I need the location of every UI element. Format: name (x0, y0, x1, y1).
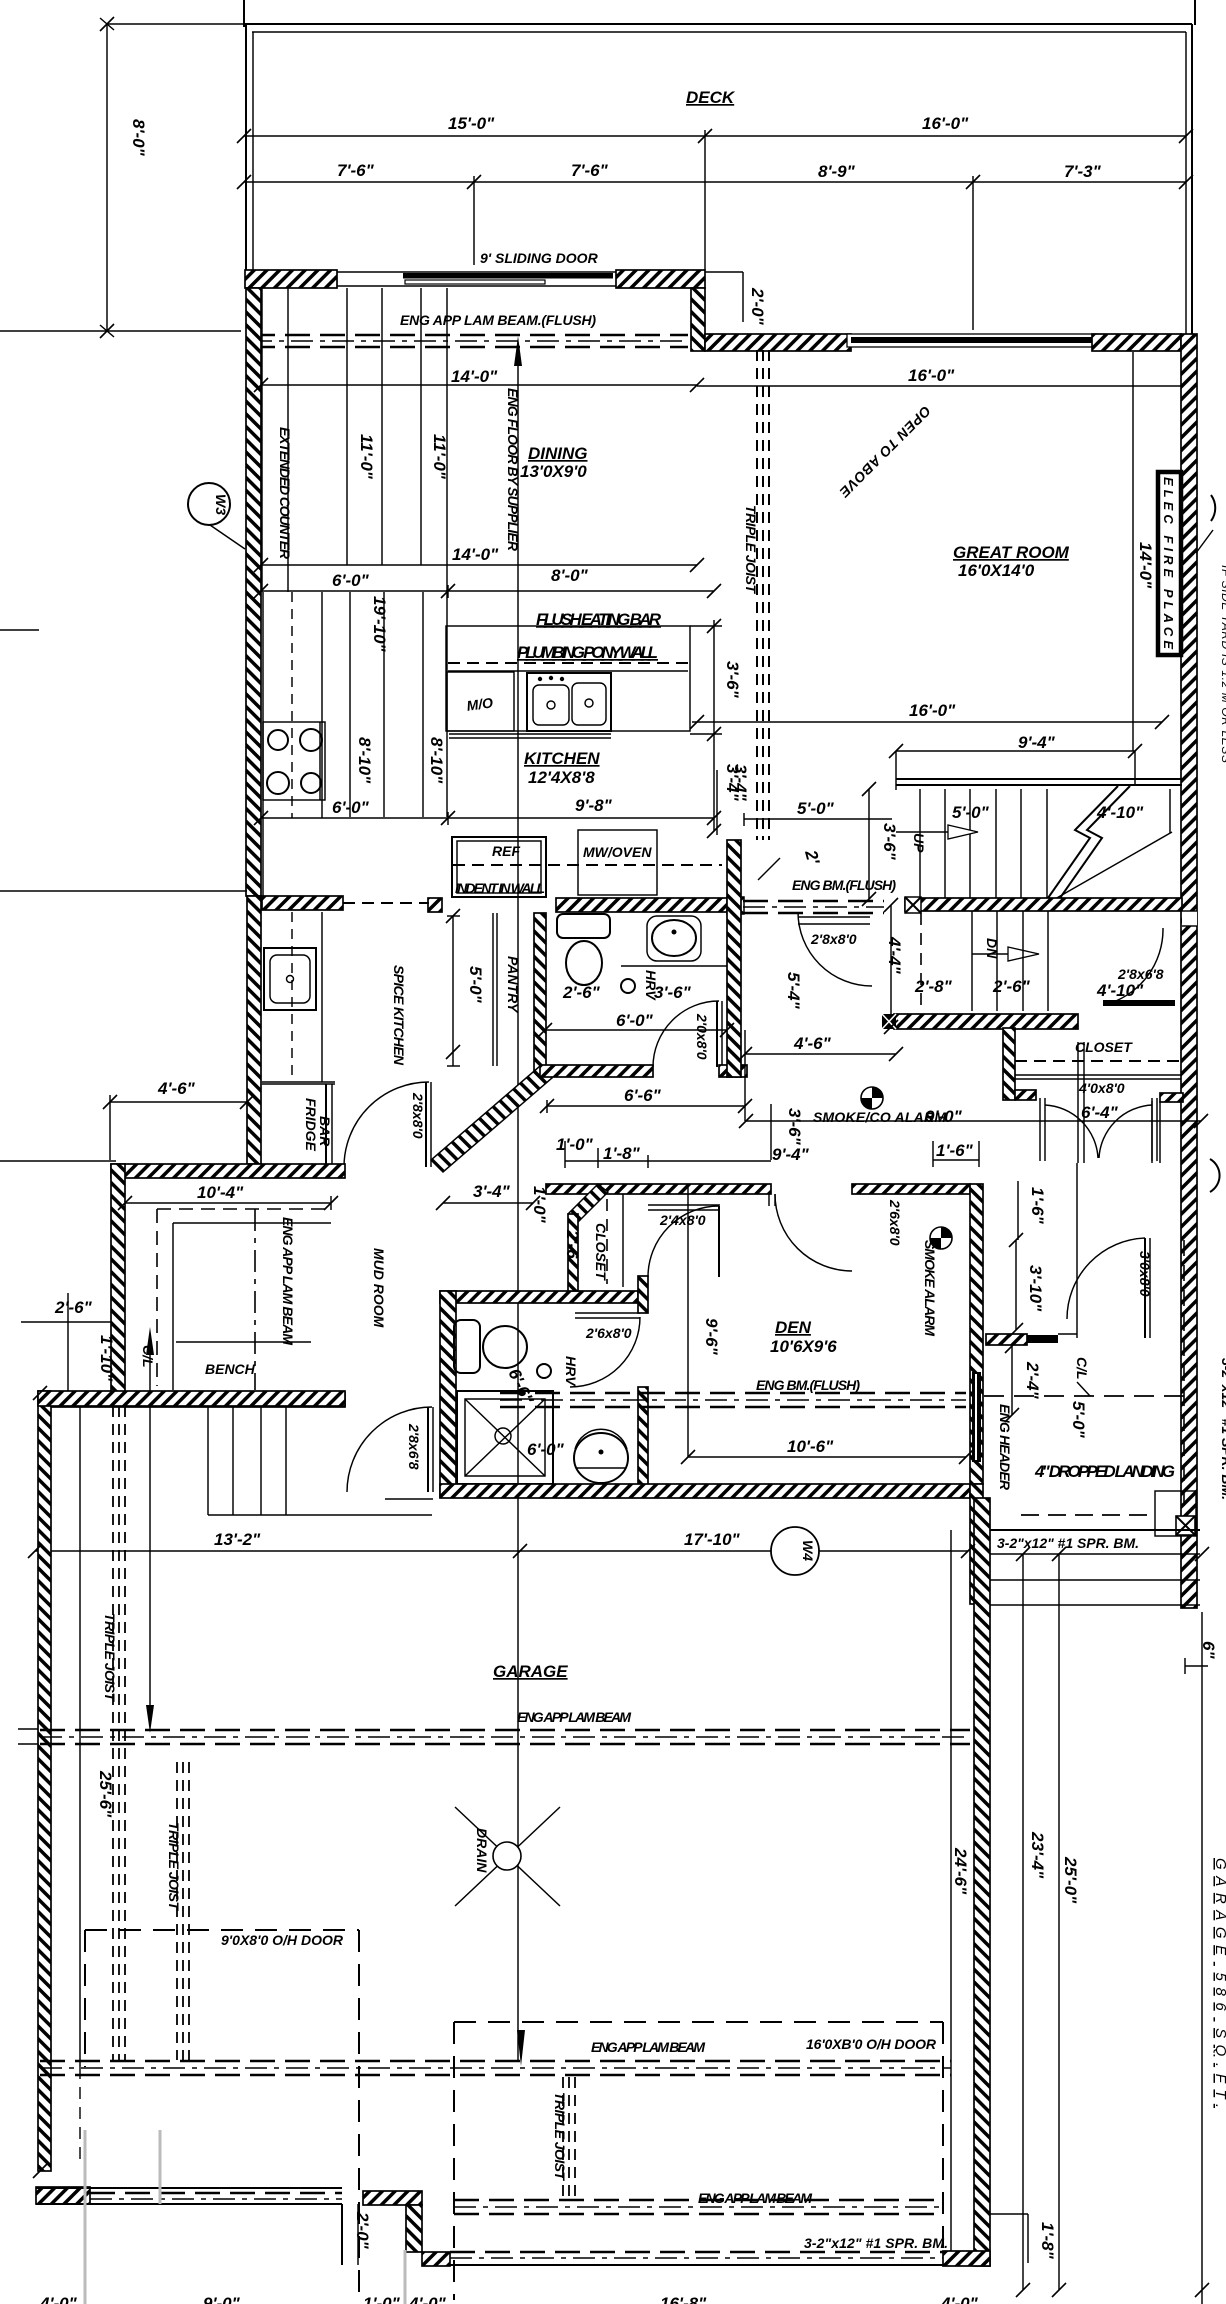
2' joist note (758, 847, 823, 880)
elec fireplace (1158, 472, 1181, 655)
dim 5'-0" landing (744, 799, 892, 826)
left exterior wall upper (246, 288, 261, 896)
svg-text:ENG APP LAM BEAM: ENG APP LAM BEAM (280, 1217, 296, 1345)
dim line 7'-6" 7'-6" 8'-9" 7'-3" (244, 161, 1186, 330)
9'0x8'0 OH door dashed (85, 1930, 359, 2300)
dim 9'-0" hall (746, 1107, 1201, 1126)
svg-text:11'-0": 11'-0" (357, 434, 376, 480)
svg-text:PLUMBING PONY WALL: PLUMBING PONY WALL (517, 643, 658, 662)
svg-text:5'-0": 5'-0" (797, 799, 835, 818)
landing dashes bottom (1021, 1514, 1147, 1516)
svg-text:16'-0": 16'-0" (908, 366, 955, 385)
svg-text:14'-0": 14'-0" (451, 367, 498, 386)
dim 4'-4" (885, 905, 904, 1027)
dim 2'-4" landing (1012, 1346, 1042, 1415)
svg-text:DECK: DECK (686, 88, 736, 107)
landing dashed line (984, 1395, 1186, 1397)
left bump lines (0, 629, 39, 631)
kitchen west counter (263, 592, 322, 896)
step wall at deck (691, 288, 705, 351)
beam ticks left of garage wall (18, 1728, 38, 1730)
wall jog right of closet (1152, 1093, 1183, 1163)
smoke/co alarm hall (813, 1087, 946, 1125)
bath sink (574, 1429, 628, 1483)
den door 2'6x8'0 (769, 1194, 903, 1271)
svg-text:1'-6": 1'-6" (1028, 1187, 1047, 1225)
UP arrow (896, 825, 978, 853)
bottom cut dims (39, 2294, 979, 2304)
pantry shelf line (492, 913, 494, 1066)
svg-text:GARAGE: GARAGE (493, 1662, 568, 1681)
landing north wall piece (986, 1334, 1077, 1345)
stair break zigzag (1048, 786, 1130, 898)
svg-text:25'-0": 25'-0" (1061, 1856, 1080, 1904)
2'4x8'0 door hall-den (623, 1194, 720, 1287)
svg-text:1'-0": 1'-0" (530, 1186, 549, 1224)
bath HRV (537, 1356, 579, 1387)
svg-text:4'-10": 4'-10" (1096, 981, 1144, 1000)
svg-text:2'-0": 2'-0" (353, 2211, 372, 2250)
svg-text:2'-8": 2'-8" (914, 977, 953, 996)
stair diagonal (1055, 832, 1172, 899)
svg-text:10'-4": 10'-4" (197, 1183, 244, 1202)
svg-text:6'-6": 6'-6" (624, 1086, 662, 1105)
svg-text:9'-4": 9'-4" (1018, 733, 1056, 752)
svg-text:14'-0": 14'-0" (452, 545, 499, 564)
hall south wall left (546, 1184, 771, 1194)
svg-text:4'-0": 4'-0" (39, 2294, 78, 2304)
svg-text:IF SIDE YARD IS 1.2 M OR LESS: IF SIDE YARD IS 1.2 M OR LESS (1219, 565, 1226, 763)
svg-text:MW/OVEN: MW/OVEN (583, 844, 652, 860)
svg-text:4'-10": 4'-10" (1096, 803, 1144, 822)
svg-text:3-2"x12" #1 SPR. BM.: 3-2"x12" #1 SPR. BM. (997, 1535, 1139, 1551)
garage inner line (79, 1406, 81, 2067)
dim 9'-4" stairs (896, 733, 1135, 790)
svg-text:1'-8": 1'-8" (1038, 2222, 1057, 2260)
powder room toilet (557, 914, 610, 985)
bath west wall (440, 1291, 456, 1497)
garage north wall band (38, 1391, 345, 1406)
svg-text:16'-8": 16'-8" (660, 2294, 707, 2304)
right wall dashed inner (1183, 1240, 1185, 1520)
triple joist dining/great (743, 350, 769, 840)
svg-text:16'-0": 16'-0" (922, 114, 969, 133)
stair treads lower (921, 911, 1048, 1011)
svg-text:16'0XB'0 O/H DOOR: 16'0XB'0 O/H DOOR (806, 2036, 937, 2052)
dim 4'-6" mud (110, 1079, 247, 1160)
top wall mid segment (616, 270, 705, 288)
svg-text:2'8x8'0: 2'8x8'0 (410, 1092, 426, 1139)
svg-text:UP: UP (911, 833, 927, 853)
svg-text:2'6x8'0: 2'6x8'0 (887, 1199, 903, 1246)
kitchen witness lines lower (350, 592, 447, 817)
bath toilet (454, 1320, 527, 1373)
svg-text:W4: W4 (800, 1540, 816, 1561)
dim witness columns dining (262, 288, 447, 592)
svg-text:3'-6": 3'-6" (785, 1108, 804, 1146)
garage right dims (951, 1554, 1080, 2290)
garage door steps mud (208, 1407, 432, 1515)
dim 6'-6" hall (547, 1086, 745, 1113)
svg-text:25'-6": 25'-6" (96, 1770, 115, 1818)
svg-text:5'-0": 5'-0" (466, 966, 485, 1004)
eng floor by supplier arrow line (505, 336, 525, 2066)
svg-text:8'-9": 8'-9" (818, 162, 856, 181)
right exterior wall (1181, 334, 1197, 1608)
svg-text:1'-10": 1'-10" (97, 1335, 116, 1382)
pantry east wall (534, 913, 546, 1073)
svg-text:BENCH: BENCH (205, 1361, 256, 1377)
post left of bottom wall (882, 1014, 896, 1029)
stair bottom wall (894, 1014, 1078, 1029)
svg-text:9'0X8'0 O/H DOOR: 9'0X8'0 O/H DOOR (221, 1932, 344, 1948)
dim 1'-8" bottom right (990, 2214, 1057, 2263)
dim 6'-0" / 9'-8" lower (261, 796, 714, 825)
svg-text:9'-0": 9'-0" (925, 1107, 963, 1126)
landing west wall (970, 1484, 983, 1604)
C/L centerline mud-garage (140, 1327, 156, 1733)
svg-text:17'-10": 17'-10" (684, 1530, 741, 1549)
svg-text:6'-0": 6'-0" (616, 1011, 654, 1030)
dim 9'-6" den (688, 1186, 721, 1457)
svg-text:7'-3": 7'-3" (1064, 162, 1102, 181)
dim 5'-0" pantry (447, 916, 485, 1066)
den smoke alarm (922, 1227, 952, 1336)
M/O box (447, 672, 611, 738)
svg-text:HRV: HRV (563, 1356, 579, 1387)
garage east wall (974, 1498, 990, 2266)
dim 8'-0" left (100, 18, 244, 337)
svg-text:3-2"x12" #1 SPR. BM.: 3-2"x12" #1 SPR. BM. (1219, 1358, 1226, 1500)
svg-text:1'-6": 1'-6" (936, 1141, 974, 1160)
door 3'0x8'0 landing (1067, 1238, 1153, 1338)
stair post landing (1155, 1491, 1196, 1536)
svg-text:DRAIN: DRAIN (474, 1828, 490, 1873)
svg-text:5'-0": 5'-0" (952, 803, 990, 822)
great room window dark bar (851, 337, 1092, 343)
svg-text:15'-0": 15'-0" (448, 114, 495, 133)
dim 14'-0" upper (261, 367, 697, 386)
island dim 3'-6" / 3'-4" (690, 620, 742, 831)
dim 10'-6" den (688, 1437, 966, 1457)
beam dashed lines dining (250, 335, 688, 347)
svg-text:2'8x8'0: 2'8x8'0 (810, 931, 857, 947)
top wall right segment w window (705, 334, 851, 351)
svg-text:12'4X8'8: 12'4X8'8 (528, 768, 595, 787)
stair mid wall (905, 898, 1182, 911)
svg-text:3'-4": 3'-4" (731, 764, 750, 802)
16'0x8'0 OH door dashed (454, 2022, 943, 2300)
powder counter line (621, 965, 727, 967)
svg-text:TRIPLE JOIST: TRIPLE JOIST (743, 505, 759, 594)
svg-text:MUD ROOM: MUD ROOM (371, 1248, 387, 1328)
dim 1'-6" hall low (933, 1141, 979, 1167)
svg-text:CLOSET: CLOSET (593, 1223, 609, 1281)
mud room west wall (111, 1164, 125, 1393)
left wall spice kitchen (247, 896, 261, 1164)
svg-text:EXTENDED COUNTER: EXTENDED COUNTER (277, 427, 293, 560)
spice kitchen north wall (262, 896, 343, 910)
svg-text:2'0x8'0: 2'0x8'0 (694, 1013, 710, 1060)
svg-text:TRIPLE JOIST: TRIPLE JOIST (166, 1822, 182, 1911)
garage beam lines 3 (454, 2200, 943, 2214)
dim 6'-0" powder (545, 1011, 727, 1030)
svg-text:ENG APP LAM BEAM: ENG APP LAM BEAM (698, 2190, 812, 2206)
W5 circle right margin (1196, 495, 1215, 553)
svg-text:FRIDGE: FRIDGE (303, 1098, 319, 1152)
dim 2'-0" step (705, 272, 767, 326)
svg-text:ENG APP LAM BEAM.(FLUSH): ENG APP LAM BEAM.(FLUSH) (400, 312, 596, 328)
bath east wall (638, 1276, 648, 1313)
dim 2'-6" 1'-10" left bump (21, 1293, 116, 1393)
svg-text:3'-6": 3'-6" (723, 661, 742, 699)
svg-text:9' SLIDING DOOR: 9' SLIDING DOOR (480, 250, 599, 266)
svg-text:7'-6": 7'-6" (337, 161, 375, 180)
svg-text:2'8x6'8: 2'8x6'8 (406, 1423, 422, 1470)
svg-text:14'-0": 14'-0" (1136, 542, 1155, 589)
dim 3'-6" stair (869, 789, 899, 899)
hall east line (1077, 1042, 1079, 1163)
beam dashes at stairs (743, 901, 884, 913)
svg-text:2'-6": 2'-6" (562, 983, 601, 1002)
garage beam lines 2 (40, 2061, 951, 2075)
svg-text:2'8x6'8: 2'8x6'8 (1117, 966, 1164, 982)
powder basin (647, 916, 701, 961)
garage bottom wall left (36, 2187, 342, 2204)
dim 16'-0" lower great (692, 701, 1162, 722)
svg-text:23'-4": 23'-4" (1028, 1831, 1047, 1879)
svg-text:ENG BM.(FLUSH): ENG BM.(FLUSH) (792, 877, 896, 893)
den-bath south wall (440, 1484, 970, 1498)
fridge bar (262, 1084, 335, 1167)
dim 16'-0" great room (697, 366, 1181, 386)
svg-text:GREAT ROOM: GREAT ROOM (953, 543, 1070, 562)
svg-text:2'-6": 2'-6" (992, 977, 1031, 996)
svg-text:9'-4": 9'-4" (772, 1145, 810, 1164)
den east wall (970, 1184, 983, 1484)
svg-text:1'-0": 1'-0" (556, 1135, 594, 1154)
svg-text:TRIPLE JOIST: TRIPLE JOIST (552, 2092, 568, 2181)
svg-text:SPICE KITCHEN: SPICE KITCHEN (391, 965, 407, 1066)
diagonal wall pantry to spice (431, 1066, 552, 1172)
garage bottom step (342, 2191, 450, 2266)
dim 3'-4" bath (443, 1182, 549, 1224)
svg-text:9'-8": 9'-8" (575, 796, 613, 815)
hall door 2'8x6'8 (1096, 928, 1175, 1006)
svg-text:2'-6: 2'-6 (563, 1229, 582, 1259)
powder south wall (540, 1065, 653, 1077)
dim 4'-6" hall (745, 1030, 896, 1121)
svg-text:6'-0": 6'-0" (332, 798, 370, 817)
svg-text:PANTRY: PANTRY (505, 956, 521, 1014)
dim 1'-6" vertical (1018, 1181, 1047, 1240)
svg-text:1'-0": 1'-0" (363, 2294, 401, 2304)
mud lockers dashed (157, 1209, 331, 1386)
svg-text:6'-0": 6'-0" (332, 571, 370, 590)
svg-text:8'-10": 8'-10" (427, 737, 446, 784)
dim 3'-10" landing (1016, 1240, 1045, 1330)
sliding door track (337, 271, 616, 273)
svg-text:9'-0": 9'-0" (203, 2294, 241, 2304)
garage mud door 2'8x6'8 (347, 1407, 433, 1499)
bath north wall (440, 1291, 638, 1303)
svg-text:ENG APP LAM BEAM: ENG APP LAM BEAM (591, 2039, 705, 2055)
W6 circle right edge (1210, 1159, 1220, 1192)
W3 circle (188, 483, 245, 549)
svg-text:13'0X9'0: 13'0X9'0 (520, 462, 587, 481)
svg-text:3'-4": 3'-4" (473, 1182, 511, 1201)
triple joist garage 2 (166, 1762, 189, 2060)
powder east wall (727, 840, 741, 1077)
triple joist garage 1 (102, 1406, 125, 2060)
ENG APP LAM BEAM mud vertical (255, 1209, 296, 1390)
svg-text:ENG BM.(FLUSH): ENG BM.(FLUSH) (756, 1377, 860, 1393)
svg-text:11'-0": 11'-0" (430, 434, 449, 480)
sliding door dark panel (403, 273, 613, 279)
bath door 2'6x8'0 (570, 1313, 640, 1387)
svg-text:3'-6": 3'-6" (880, 823, 899, 861)
kitchen hall door 2'8x8'0 (798, 912, 872, 986)
svg-text:3-2"x12" #1 SPR. BM.: 3-2"x12" #1 SPR. BM. (804, 2235, 948, 2251)
svg-text:4'-6": 4'-6" (793, 1034, 832, 1053)
svg-text:W3: W3 (213, 494, 229, 515)
svg-text:19'-10": 19'-10" (370, 596, 389, 653)
svg-text:6'-4": 6'-4" (1081, 1103, 1119, 1122)
post left of stair wall (905, 897, 921, 913)
scanner gray artifacts (84, 2130, 87, 2304)
svg-text:2'-6": 2'-6" (54, 1298, 93, 1317)
svg-text:10'-6": 10'-6" (787, 1437, 834, 1456)
right witness line (1201, 1612, 1203, 2304)
svg-text:2'6x8'0: 2'6x8'0 (585, 1325, 632, 1341)
property line left (0, 330, 241, 332)
den header window (972, 1372, 1013, 1491)
closet 4'0x8'0 (1003, 1028, 1181, 1161)
svg-text:3'-6": 3'-6" (654, 983, 692, 1002)
svg-text:8'-0": 8'-0" (129, 119, 148, 157)
REF box (452, 837, 546, 897)
pony wall dashed line (448, 662, 688, 664)
deck outline (244, 0, 1195, 334)
den closet diagonal (563, 1184, 609, 1291)
dim 10'-4" mud (125, 1183, 331, 1210)
triple joist garage 3 (552, 2077, 575, 2199)
mud bench box (173, 1223, 331, 1390)
shower (457, 1391, 553, 1484)
DN arrow (972, 938, 1039, 961)
den beam dashes (500, 1393, 966, 1407)
svg-text:5'-4": 5'-4" (784, 972, 803, 1010)
svg-text:4" DROPPED LANDING: 4" DROPPED LANDING (1034, 1462, 1175, 1481)
C/L landing (1074, 1357, 1090, 1396)
dim 6'-0" / 8'-0" kitchen (261, 566, 714, 598)
right wall notch at stairs (1182, 911, 1197, 926)
mud room north wall (111, 1164, 345, 1178)
svg-text:8'-10": 8'-10" (355, 737, 374, 784)
stair treads upper (920, 789, 1047, 898)
dim 6" (1185, 1641, 1218, 1674)
dim 3'-6" 9'-4" hall verticals (771, 1104, 810, 1164)
svg-text:5'-0": 5'-0" (1069, 1401, 1088, 1439)
appliance dashed line (453, 864, 722, 866)
svg-text:9'-6": 9'-6" (702, 1318, 721, 1356)
garage bottom beams (450, 2252, 943, 2265)
hall south wall E (852, 1184, 970, 1194)
svg-text:2'-0": 2'-0" (748, 287, 767, 326)
svg-text:ENG FLOOR BY SUPPLIER: ENG FLOOR BY SUPPLIER (505, 388, 521, 552)
kitchen island outline (446, 626, 690, 731)
svg-text:6'-0": 6'-0" (527, 1440, 565, 1459)
drain (455, 1807, 560, 1906)
svg-text:7'-6": 7'-6" (571, 161, 609, 180)
svg-text:C/L: C/L (1074, 1357, 1090, 1380)
svg-text:TRIPLE JOIST: TRIPLE JOIST (102, 1613, 118, 1702)
mud south wall (40, 1393, 345, 1407)
garage steps at landing (987, 1530, 1200, 1605)
powder door 2'0x8'0 (653, 1001, 722, 1067)
svg-text:2'-4": 2'-4" (1023, 1361, 1042, 1400)
double sink (527, 673, 611, 731)
garage west wall (38, 1391, 51, 2171)
svg-text:KITCHEN: KITCHEN (524, 749, 600, 768)
post at stair wall (727, 897, 744, 914)
svg-text:REF: REF (492, 843, 520, 859)
garage beam lines 1 (40, 1730, 970, 1744)
svg-text:8'-0": 8'-0" (551, 566, 589, 585)
svg-text:4'-0": 4'-0" (408, 2294, 447, 2304)
hall dims 1'-0" 1'-8" (556, 1135, 771, 1168)
top wall left segment (245, 270, 337, 288)
svg-text:2'4x8'0: 2'4x8'0 (659, 1212, 706, 1228)
svg-text:24'-6": 24'-6" (951, 1847, 970, 1895)
svg-text:16'-0": 16'-0" (909, 701, 956, 720)
svg-text:INDENT IN WALL: INDENT IN WALL (455, 880, 545, 896)
svg-text:1'-8": 1'-8" (603, 1144, 641, 1163)
garage bottom right corner (943, 2251, 990, 2266)
svg-text:4'-0": 4'-0" (940, 2294, 979, 2304)
svg-text:DEN: DEN (775, 1318, 812, 1337)
svg-text:10'6X9'6: 10'6X9'6 (770, 1337, 837, 1356)
stove (263, 722, 325, 800)
spice counter (262, 912, 335, 1082)
svg-text:4'0x8'0: 4'0x8'0 (1078, 1080, 1125, 1096)
spice kitchen sink (264, 948, 316, 1010)
svg-text:DINING: DINING (528, 444, 588, 463)
svg-text:4'-6": 4'-6" (157, 1079, 196, 1098)
spice door 2'8x8'0 (344, 1082, 431, 1167)
svg-text:3'-10": 3'-10" (1026, 1265, 1045, 1312)
svg-text:4'-4": 4'-4" (885, 936, 904, 975)
stair top double line (896, 779, 1182, 785)
dim 17'-10" / W4 (35, 1527, 968, 1575)
svg-text:ENG APP LAM BEAM: ENG APP LAM BEAM (517, 1709, 631, 1725)
HRV powder (621, 970, 659, 1001)
dim line 15'-0" / 16'-0" (244, 114, 1186, 270)
kitchen south wall segments (428, 898, 442, 912)
MW/OVEN box (578, 830, 657, 895)
counter edge line (287, 288, 289, 592)
svg-text:SMOKE ALARM: SMOKE ALARM (922, 1240, 938, 1336)
svg-text:13'-2": 13'-2" (214, 1530, 261, 1549)
svg-text:16'0X14'0: 16'0X14'0 (958, 561, 1035, 580)
dim 14'-0" lower (261, 545, 697, 565)
dim 3'-4" vert (717, 764, 750, 835)
